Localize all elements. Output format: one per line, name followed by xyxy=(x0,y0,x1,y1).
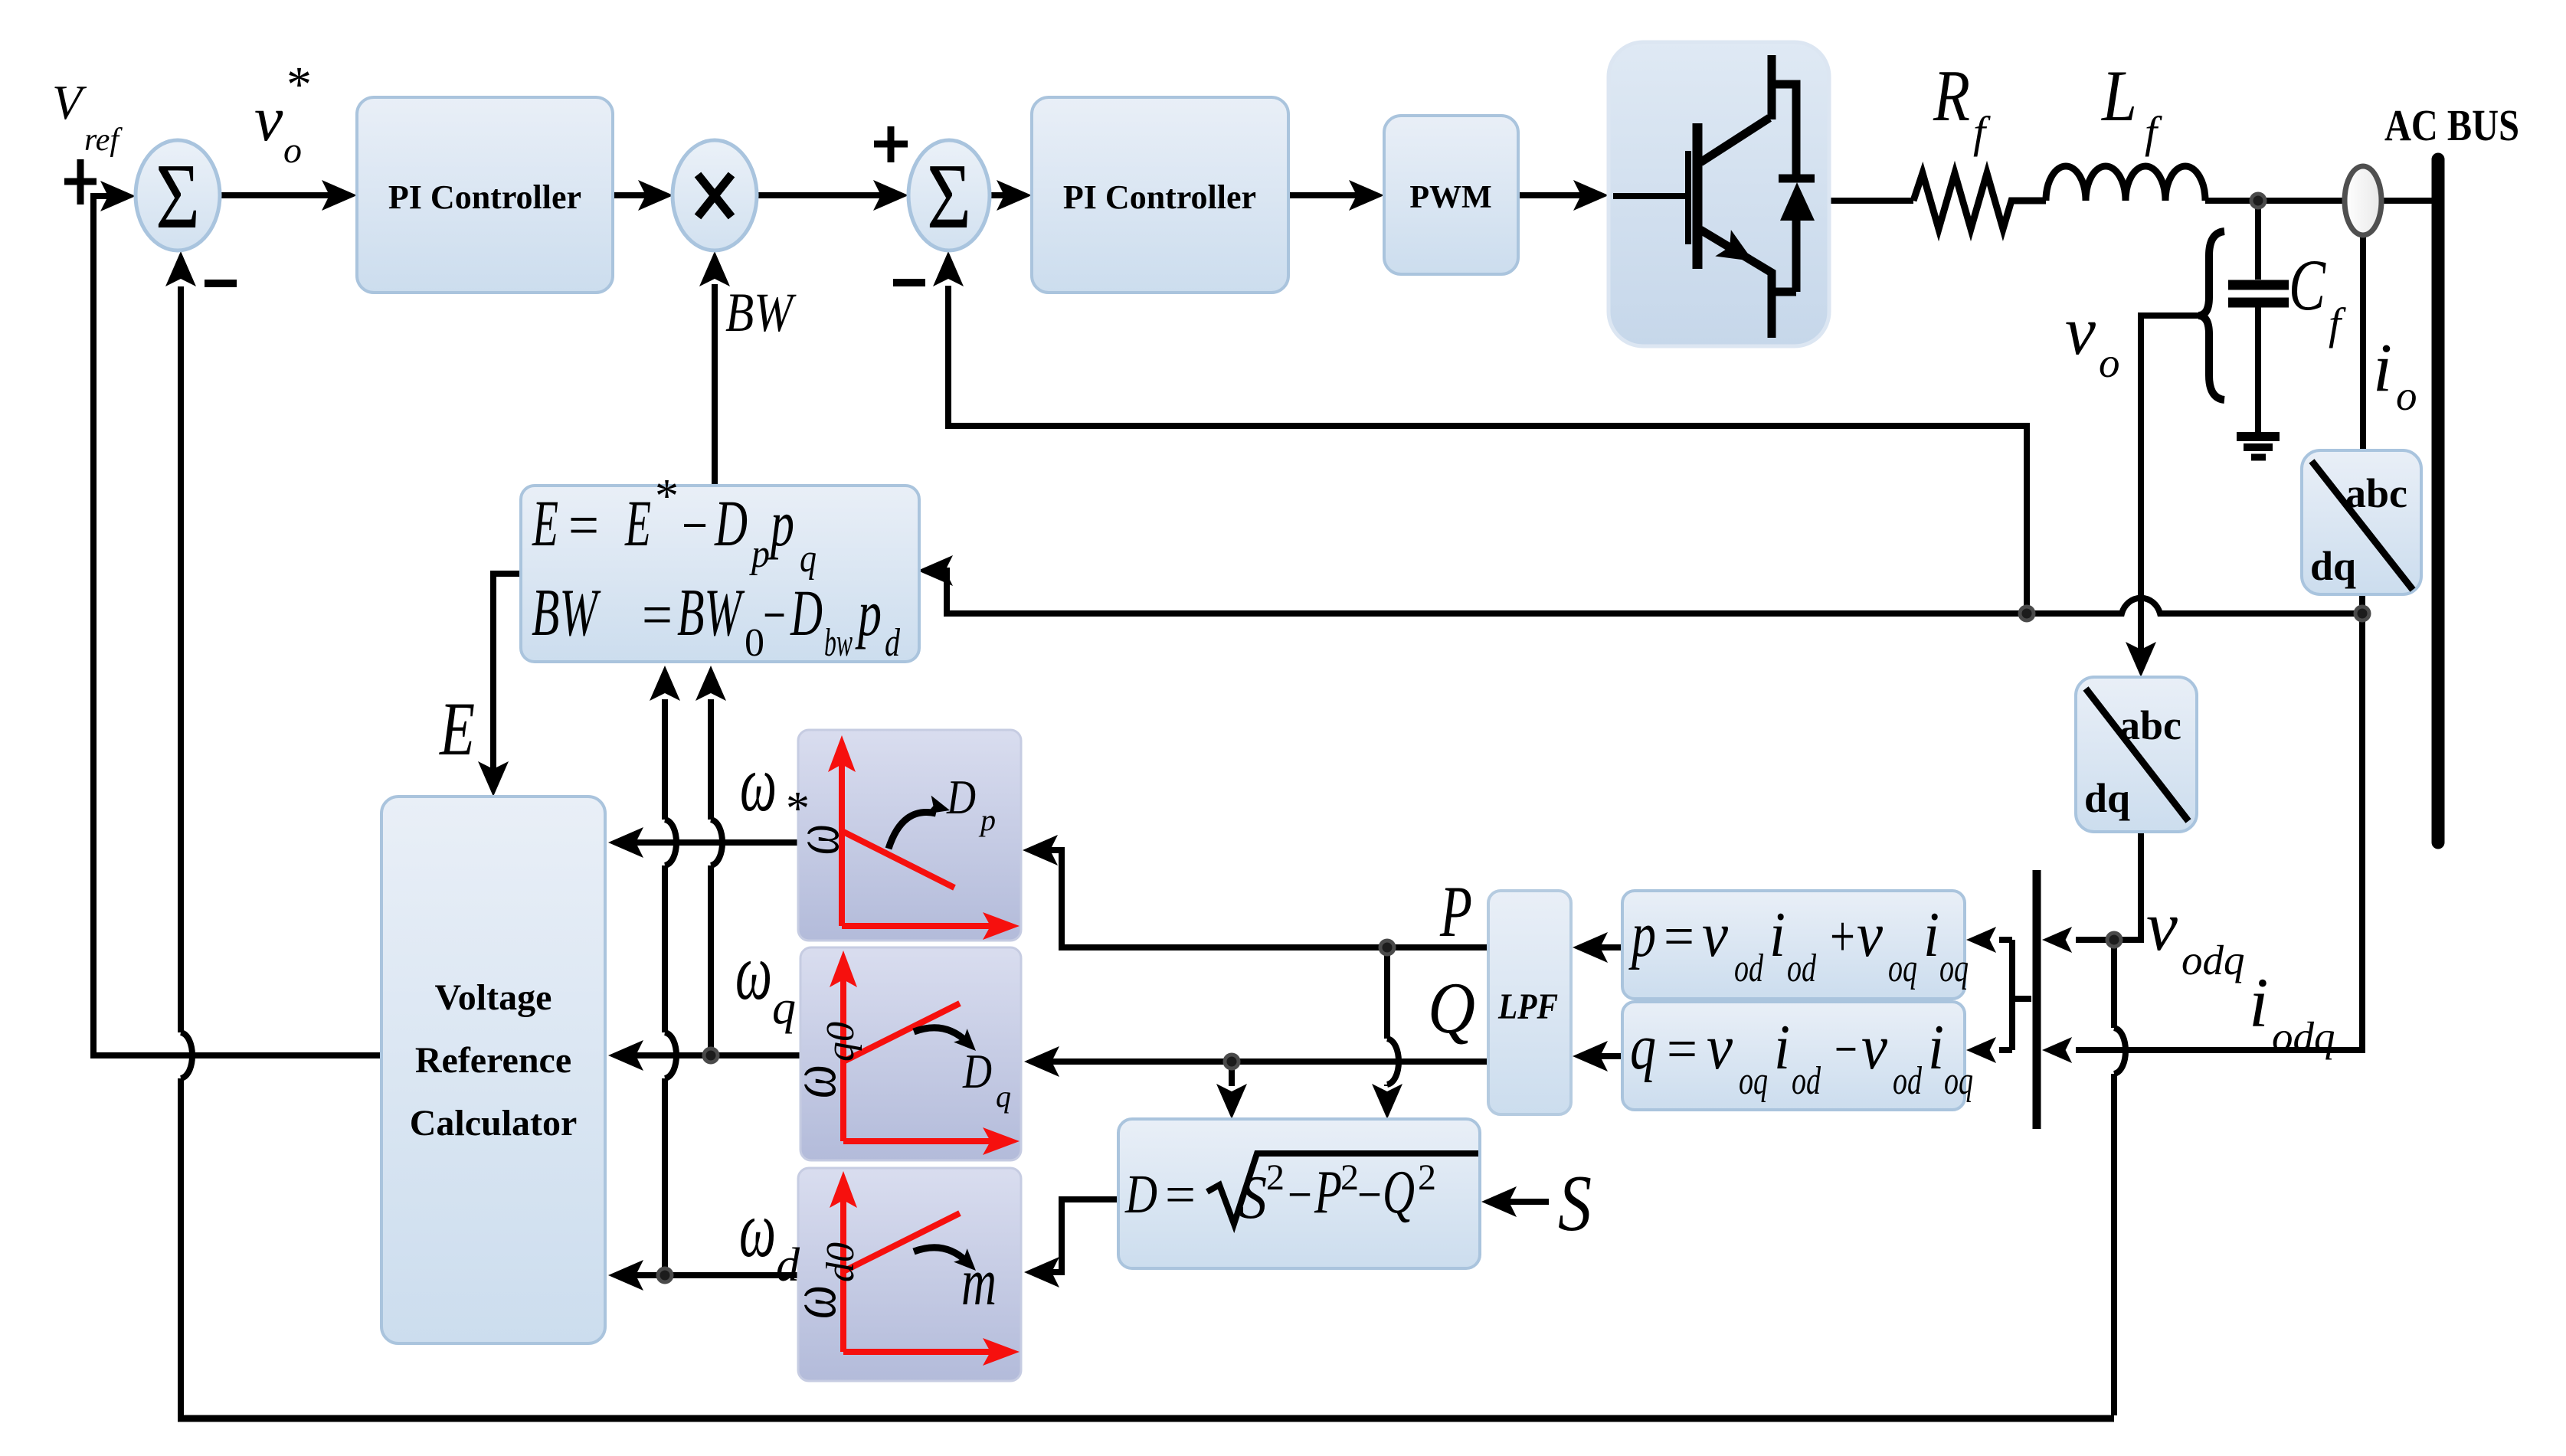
svg-text:p: p xyxy=(855,576,882,649)
svg-text:o: o xyxy=(2396,372,2417,419)
capacitor Cf branch xyxy=(2255,201,2261,434)
node Rf label xyxy=(1933,55,1991,157)
summing junction S2 xyxy=(908,140,990,250)
p equation box xyxy=(1622,891,1969,999)
droop2 red axes xyxy=(843,973,996,1141)
node omega_q tee xyxy=(704,1049,718,1062)
node P tee xyxy=(1380,941,1394,954)
minus sign at Sigma2 xyxy=(893,279,925,286)
node vo label xyxy=(2065,293,2120,386)
arrow up into multiplier bottom (BW) xyxy=(699,251,730,286)
svg-text:od: od xyxy=(1734,947,1764,990)
svg-text:PWM: PWM xyxy=(1409,180,1491,215)
svg-text:BW: BW xyxy=(725,282,797,343)
wire p-eq box to LPF xyxy=(1583,944,1622,950)
wire Sigma2 to PI controller 2 xyxy=(990,192,1021,198)
svg-text:v: v xyxy=(2065,293,2096,369)
wire vo sense: brace to abc/dq2 xyxy=(2141,316,2201,666)
node omega_q line label xyxy=(735,927,796,1034)
arrow into droop3 right (m input) xyxy=(1024,1257,1059,1287)
capacitor Cf plates xyxy=(2228,280,2289,290)
diode triangle xyxy=(1780,182,1815,221)
svg-text:Q: Q xyxy=(1428,967,1475,1049)
svg-text:dq: dq xyxy=(2310,543,2356,589)
wire D-box output to droop3 xyxy=(1035,1199,1118,1272)
svg-text:ω: ω xyxy=(739,1184,776,1274)
svg-text:oq: oq xyxy=(1939,947,1969,990)
wire pq input up to E/BW box (x=928) xyxy=(708,699,714,1055)
abc/dq block 2 xyxy=(2076,677,2197,832)
svg-text:R: R xyxy=(1933,55,1970,136)
node Q tee xyxy=(1225,1055,1239,1068)
svg-text:v: v xyxy=(1702,899,1729,970)
summing junction S1 xyxy=(136,140,220,250)
wire multiplier to Sigma2 xyxy=(757,192,898,198)
svg-text:−: − xyxy=(1357,1166,1382,1225)
brace for vo xyxy=(2198,231,2224,400)
svg-text:−: − xyxy=(682,492,708,558)
svg-text:*: * xyxy=(655,470,679,522)
droop3 slope arrow xyxy=(914,1248,967,1261)
node abc/dq1 output tee xyxy=(2355,607,2369,620)
wire feedback to E/BW box (y=801) with hop over vo line xyxy=(928,571,2362,613)
svg-text:abc: abc xyxy=(2345,470,2407,516)
node vodq label xyxy=(2146,887,2245,983)
wire inverter to resistor xyxy=(1829,198,1913,204)
svg-text:E: E xyxy=(438,686,475,771)
wire Sigma2 feedback from junction on y=801 line xyxy=(948,286,2027,613)
diode anode lead xyxy=(1772,221,1796,338)
IGBT gate lead xyxy=(1613,193,1685,199)
wire S input to D-box xyxy=(1492,1199,1549,1205)
arrow into E/BW box right side xyxy=(918,555,953,586)
arrows into p/q eq boxes xyxy=(1966,927,1996,953)
svg-text:q: q xyxy=(800,537,817,581)
Voltage Reference Calculator box xyxy=(381,797,605,1343)
wire omega_d droop3 to VRC xyxy=(619,1272,800,1278)
arrow down into abc/dq2 (vo) xyxy=(2126,642,2156,677)
droop3 red axes xyxy=(843,1194,996,1352)
svg-text:od: od xyxy=(1792,1059,1821,1103)
svg-text:BW: BW xyxy=(532,576,601,650)
svg-text:ω: ω xyxy=(735,927,772,1016)
abc/dq block 1 xyxy=(2302,450,2421,594)
svg-text:D: D xyxy=(946,770,976,824)
svg-text:v: v xyxy=(254,83,283,155)
svg-text:−: − xyxy=(1288,1166,1312,1225)
resistor Rf zigzag xyxy=(1913,173,2046,229)
svg-text:=: = xyxy=(642,581,673,648)
svg-text:=: = xyxy=(568,492,599,558)
droop graph 2 (Q droop) box xyxy=(776,947,1021,1160)
wire inductor to AC bus xyxy=(2205,198,2433,204)
node vodq tee xyxy=(2107,933,2121,947)
svg-text:−: − xyxy=(763,581,786,648)
diode cathode bar xyxy=(1779,175,1815,183)
arrow down into VRC top (E) xyxy=(478,761,509,797)
plus sign at Sigma2 xyxy=(874,126,908,162)
svg-text:=: = xyxy=(1664,905,1694,969)
svg-text:Reference: Reference xyxy=(415,1040,571,1081)
svg-text:v: v xyxy=(1707,1012,1733,1083)
svg-text:p: p xyxy=(1628,899,1656,970)
svg-text:i: i xyxy=(2249,964,2269,1042)
node Cf label xyxy=(2289,244,2346,348)
svg-text:Calculator: Calculator xyxy=(410,1103,578,1144)
wire vodq branch down to bottom line with hop over iodq xyxy=(2111,940,2117,1415)
svg-text:q: q xyxy=(772,982,796,1034)
svg-text:i: i xyxy=(2373,330,2392,406)
wire P from LPF to droop1 xyxy=(1033,850,1488,947)
svg-text:2: 2 xyxy=(1266,1157,1285,1198)
svg-text:=: = xyxy=(1165,1166,1196,1225)
IGBT emitter xyxy=(1700,230,1772,292)
PI controller 1 box xyxy=(357,97,613,293)
inductor Lf arcs xyxy=(2046,166,2205,201)
arrows into LPF xyxy=(1573,932,1608,963)
svg-text:v: v xyxy=(1861,1012,1888,1083)
svg-text:Σ: Σ xyxy=(155,145,200,248)
svg-text:PI Controller: PI Controller xyxy=(388,178,581,216)
svg-text:bw: bw xyxy=(824,621,853,665)
svg-text:q: q xyxy=(996,1079,1011,1114)
arrow into PI1 xyxy=(322,180,357,211)
arrows into distribution bar xyxy=(2042,927,2072,953)
node Sigma2-feedback tee xyxy=(2020,607,2034,620)
svg-text:BW: BW xyxy=(677,576,745,650)
wire io sensor to abc/dq1 xyxy=(2360,234,2366,450)
svg-text:d: d xyxy=(885,621,901,665)
droop2 characteristic line xyxy=(843,1003,960,1062)
wire omega* droop1 to VRC xyxy=(619,839,800,846)
wire omega_q droop2 to VRC xyxy=(619,1052,800,1058)
droop graph 3 (D droop) box xyxy=(776,1168,1021,1381)
plus sign at Sigma1 xyxy=(64,159,97,204)
arrows up into E/BW box bottom xyxy=(650,666,680,701)
svg-text:PI Controller: PI Controller xyxy=(1063,178,1256,216)
wire Sigma1 to PI controller 1 xyxy=(221,192,346,198)
AC BUS bar xyxy=(2432,159,2445,843)
wire E from E/BW box to VRC xyxy=(493,574,523,786)
svg-text:D: D xyxy=(714,486,748,560)
svg-text:−: − xyxy=(1834,1017,1857,1081)
svg-text:2: 2 xyxy=(1340,1157,1359,1198)
wire bottom long feedback line xyxy=(178,1415,2114,1422)
node iodq label xyxy=(2249,964,2335,1060)
wire Q branch down to D-box xyxy=(1229,1062,1235,1086)
wire pd input up to E/BW box (x=868) with hops xyxy=(662,699,668,1275)
svg-text:q: q xyxy=(1630,1012,1656,1083)
wire BW from E/BW box to multiplier xyxy=(712,284,718,486)
node omega_d line label xyxy=(739,1184,800,1291)
svg-text:P: P xyxy=(1439,871,1472,952)
arrow into Sigma2 xyxy=(873,180,908,211)
arrow up into Sigma2 bottom (minus) xyxy=(933,251,964,286)
svg-text:D: D xyxy=(1124,1163,1157,1225)
svg-text:i: i xyxy=(1774,1012,1790,1083)
D equation box xyxy=(1118,1119,1480,1268)
svg-text:od: od xyxy=(1787,947,1817,990)
svg-text:Q: Q xyxy=(1383,1159,1415,1226)
arrows into VRC right side xyxy=(608,827,643,858)
arrows down into D-box xyxy=(1372,1084,1402,1119)
arrow into PWM xyxy=(1349,180,1384,211)
svg-text:p: p xyxy=(978,803,996,837)
svg-text:odq: odq xyxy=(2272,1013,2335,1060)
wire PI1 to multiplier xyxy=(613,192,663,198)
svg-text:*: * xyxy=(286,57,312,113)
svg-text:L: L xyxy=(2100,55,2137,136)
svg-text:o: o xyxy=(2099,339,2120,386)
svg-text:odq: odq xyxy=(2181,937,2245,983)
inverter IGBT box xyxy=(1609,42,1829,346)
droop1 characteristic line xyxy=(842,831,954,888)
ground xyxy=(2237,432,2280,441)
droop2 slope arrow xyxy=(914,1028,967,1042)
svg-text:d: d xyxy=(776,1239,800,1291)
diode cathode lead xyxy=(1772,84,1796,176)
svg-text:C: C xyxy=(2289,244,2326,326)
PI controller 2 box xyxy=(1032,97,1288,293)
arrow into PI2 xyxy=(997,180,1032,211)
arrow into multiplier xyxy=(638,180,673,211)
svg-text:ω: ω xyxy=(740,738,777,828)
svg-text:P: P xyxy=(1314,1159,1342,1226)
droop graph 1 (P droop) box xyxy=(779,730,1021,941)
arrow into droop1 right (P) xyxy=(1023,835,1058,865)
current sensor ellipse xyxy=(2345,166,2381,235)
svg-text:D: D xyxy=(962,1044,992,1098)
wire Q from LPF to droop2 xyxy=(1035,1058,1488,1065)
droop3 characteristic line xyxy=(843,1213,960,1271)
svg-text:E: E xyxy=(624,486,651,560)
node omega_d tee xyxy=(658,1268,672,1282)
node Vref label xyxy=(52,75,123,158)
droop1 slope arrow xyxy=(889,812,936,849)
svg-text:0: 0 xyxy=(745,621,764,665)
svg-text:AC BUS: AC BUS xyxy=(2384,100,2519,150)
arrow into droop2 right (Q) xyxy=(1024,1046,1059,1077)
wire Vref feedback: VRC left output to Sigma1 plus input xyxy=(93,196,381,1055)
wire PI2 to PWM xyxy=(1288,192,1373,198)
svg-text:oq: oq xyxy=(1888,947,1917,990)
ARROWHEADS xyxy=(100,180,2156,1291)
hop of minus-feedback vertical over Vref line xyxy=(181,1032,192,1078)
LPF box xyxy=(1488,891,1571,1114)
svg-text:Σ: Σ xyxy=(927,145,971,248)
droop1 red axes xyxy=(842,758,996,926)
E/BW equations box xyxy=(521,470,919,665)
svg-text:i: i xyxy=(1928,1012,1944,1083)
svg-text:E: E xyxy=(532,486,558,560)
svg-text:D: D xyxy=(790,576,823,649)
svg-text:oq: oq xyxy=(1944,1059,1973,1103)
svg-text:Voltage: Voltage xyxy=(435,977,552,1018)
svg-text:p: p xyxy=(768,486,794,560)
distribution bar xyxy=(2033,870,2041,1129)
svg-text:od: od xyxy=(1893,1059,1923,1103)
IGBT body bar xyxy=(1693,123,1703,269)
IGBT collector xyxy=(1700,55,1772,162)
svg-text:p: p xyxy=(748,532,770,576)
arrow up into Sigma1 bottom (minus) xyxy=(165,251,196,286)
svg-text:i: i xyxy=(1923,899,1939,970)
wire q-eq box to LPF xyxy=(1583,1053,1622,1059)
svg-text:*: * xyxy=(786,783,810,835)
svg-text:abc: abc xyxy=(2119,702,2181,748)
node io label xyxy=(2373,330,2417,419)
wire vodq from abc/dq2 down and left to dist bar xyxy=(2076,832,2141,940)
svg-text:S: S xyxy=(1239,1164,1267,1232)
wire abc/dq1 output down to iodq corner xyxy=(2076,594,2362,1050)
wire PWM to inverter xyxy=(1518,192,1598,198)
connector bracket from bar to p/q eq boxes xyxy=(2012,940,2031,1050)
svg-text:LPF: LPF xyxy=(1497,986,1558,1027)
minus sign at Sigma1 xyxy=(205,280,237,287)
svg-text:ref: ref xyxy=(84,123,123,158)
wire Sigma1 minus feedback vertical from bottom line xyxy=(178,286,184,1415)
svg-text:+: + xyxy=(1830,905,1855,969)
svg-text:2: 2 xyxy=(1418,1157,1436,1198)
IGBT gate bar xyxy=(1685,151,1691,244)
arrow into inverter xyxy=(1573,180,1609,211)
arrow S into D-box xyxy=(1481,1186,1517,1217)
svg-text:S: S xyxy=(1558,1158,1592,1248)
svg-text:i: i xyxy=(1769,899,1785,970)
multiplier X xyxy=(673,140,757,250)
svg-text:oq: oq xyxy=(1739,1059,1768,1103)
svg-text:=: = xyxy=(1667,1017,1697,1081)
arrow into Sigma1 xyxy=(100,181,136,211)
PWM box xyxy=(1384,116,1518,274)
svg-text:v: v xyxy=(1857,899,1884,970)
svg-text:dq: dq xyxy=(2084,775,2130,821)
svg-text:o: o xyxy=(283,130,302,171)
svg-text:v: v xyxy=(2146,887,2178,965)
svg-text:m: m xyxy=(961,1245,997,1320)
wire P branch down to D-box with hop over Q line xyxy=(1384,947,1390,1086)
node Lf label xyxy=(2100,55,2162,157)
q equation box xyxy=(1622,1002,1973,1110)
node filter cap junction xyxy=(2251,194,2265,208)
node vo* label xyxy=(254,57,312,171)
